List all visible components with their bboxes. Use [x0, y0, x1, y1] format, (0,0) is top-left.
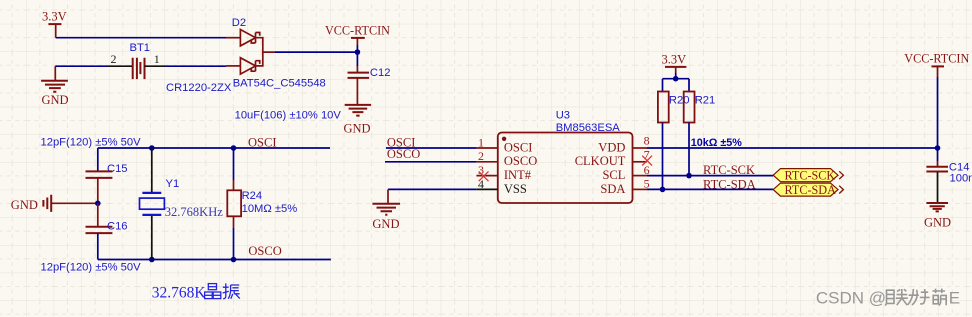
svg-text:OSCO: OSCO	[248, 244, 281, 258]
junction VDD/C14	[935, 145, 941, 151]
svg-text:100n: 100n	[950, 173, 972, 185]
battery BT1	[133, 58, 145, 79]
junction VCC-RTCIN / C12	[355, 49, 361, 55]
wire OSCO (crystal bottom)	[98, 259, 331, 261]
capacitor C12	[348, 52, 370, 104]
ground GND (crystal, rotated)	[11, 195, 98, 212]
wire battery to D2 bottom anode	[166, 65, 226, 67]
wire SCL to port	[647, 175, 773, 177]
svg-text:RTC-SDA: RTC-SDA	[785, 183, 837, 197]
junction crystal top	[149, 145, 155, 151]
junction SCL/R21	[686, 173, 692, 179]
svg-text:CLKOUT: CLKOUT	[575, 154, 626, 168]
svg-text:12pF(120) ±5% 50V: 12pF(120) ±5% 50V	[41, 137, 142, 149]
svg-text:INT#: INT#	[504, 168, 532, 182]
pin 2 OSCO stub	[476, 161, 497, 163]
glyph 萌	[932, 289, 945, 293]
ground GND (U3 VSS)	[372, 189, 400, 230]
wire GND to pin 4 VSS	[388, 188, 476, 190]
ground GND (below C12)	[344, 105, 372, 136]
svg-text:CR1220-2ZX: CR1220-2ZX	[166, 82, 232, 94]
IC U3 BM8563ESA	[498, 133, 633, 204]
wire 3.3V to R20/R21 tops	[663, 79, 690, 92]
title 32.768K晶振	[152, 283, 240, 301]
svg-text:OSCI: OSCI	[504, 140, 532, 154]
svg-text:GND: GND	[42, 93, 69, 107]
svg-text:CSDN @: CSDN @	[816, 288, 886, 307]
junction crystal bottom	[149, 257, 155, 263]
svg-text:3.3V: 3.3V	[662, 52, 687, 66]
svg-text:1: 1	[154, 52, 160, 66]
svg-text:2: 2	[478, 149, 484, 163]
svg-text:6: 6	[644, 163, 650, 177]
svg-text:5: 5	[644, 176, 650, 190]
svg-text:BM8563ESA: BM8563ESA	[556, 122, 621, 134]
svg-text:RTC-SDA: RTC-SDA	[703, 177, 756, 191]
svg-text:C15: C15	[107, 163, 128, 175]
svg-text:12pF(120) ±5% 50V: 12pF(120) ±5% 50V	[41, 262, 142, 274]
wire R21 to SCL	[688, 123, 690, 176]
glyph 朕	[885, 290, 894, 305]
svg-text:VSS: VSS	[504, 182, 527, 196]
pin 7 CLKOUT stub	[633, 161, 648, 163]
svg-text:8: 8	[644, 134, 650, 148]
watermark CSDN @朕好萌E	[816, 288, 960, 307]
svg-text:BT1: BT1	[130, 42, 151, 54]
svg-text:OSCI: OSCI	[248, 135, 276, 149]
svg-text:C16: C16	[107, 221, 128, 233]
port RTC-SDA	[773, 183, 843, 197]
svg-text:RTC-SCK: RTC-SCK	[785, 169, 836, 183]
resistor R24	[227, 148, 241, 260]
crystal Y1	[140, 148, 165, 260]
no-connect X pin 7	[642, 156, 652, 166]
svg-text:4: 4	[478, 177, 484, 191]
svg-text:R24: R24	[242, 190, 263, 202]
svg-text:2: 2	[111, 52, 117, 66]
svg-text:U3: U3	[556, 110, 570, 122]
wire OSCO to pin 2	[385, 161, 476, 163]
svg-text:BAT54C_C545548: BAT54C_C545548	[233, 78, 326, 90]
svg-text:VCC-RTCIN: VCC-RTCIN	[904, 52, 969, 66]
svg-text:D2: D2	[232, 17, 246, 29]
ground GND (C14)	[924, 203, 951, 229]
power port VCC-RTCIN (right)	[904, 52, 969, 148]
port RTC-SCK	[773, 169, 843, 183]
svg-text:SDA: SDA	[600, 182, 625, 196]
wire GND to battery pin 2	[55, 65, 108, 67]
wire R20 to SDA	[662, 123, 664, 190]
svg-text:VDD: VDD	[598, 140, 625, 154]
svg-text:1: 1	[478, 135, 484, 149]
svg-text:10uF(106) ±10% 10V: 10uF(106) ±10% 10V	[235, 109, 342, 121]
svg-text:32.768K: 32.768K	[152, 285, 207, 302]
battery BT1 pin 2 stub	[108, 65, 133, 67]
wire net 3.3V to D2 top anode	[56, 37, 226, 39]
svg-text:OSCO: OSCO	[504, 154, 537, 168]
junction R24 top	[231, 145, 237, 151]
pin 5 SDA stub	[633, 188, 648, 190]
svg-text:OSCO: OSCO	[387, 147, 420, 161]
capacitor C16	[86, 203, 113, 259]
pin 8 VDD stub	[633, 147, 648, 149]
wire SDA to port	[647, 188, 773, 190]
no-connect X pin 3	[479, 171, 489, 181]
svg-text:3.3V: 3.3V	[42, 10, 67, 24]
power port 3.3V (top left)	[42, 10, 67, 38]
svg-text:GND: GND	[372, 217, 399, 231]
ground GND (below 3.3V, battery negative)	[41, 66, 68, 107]
junction 3.3V split	[673, 76, 679, 82]
resistor R20	[658, 92, 669, 123]
wire OSCI to pin 1	[386, 147, 476, 149]
resistor R21	[684, 92, 695, 123]
junction C15/C16/GND	[95, 201, 101, 207]
pin 6 SCL stub	[633, 175, 648, 177]
wire D2 output to VCC-RTCIN	[275, 51, 358, 53]
svg-text:GND: GND	[11, 198, 38, 212]
pin 1 OSCI stub	[476, 147, 497, 149]
svg-text:RTC-SCK: RTC-SCK	[703, 163, 755, 177]
pin 4 VSS stub	[476, 188, 497, 190]
glyph 好	[908, 289, 919, 305]
wire VDD pin 8 to VCC-RTCIN	[647, 147, 938, 149]
svg-text:E: E	[949, 288, 960, 307]
svg-text:R21: R21	[695, 94, 716, 106]
capacitor C14	[926, 148, 948, 203]
battery BT1 pin 1 stub	[145, 65, 167, 67]
svg-text:C12: C12	[370, 67, 391, 79]
svg-text:GND: GND	[924, 215, 951, 229]
wire OSCI (crystal top)	[98, 147, 330, 149]
svg-text:VCC-RTCIN: VCC-RTCIN	[325, 24, 390, 38]
junction R24 bottom	[231, 257, 237, 263]
pin 3 INT# stub	[476, 175, 497, 177]
diode D2 (dual schottky BAT54C)	[226, 30, 275, 75]
svg-text:10MΩ ±5%: 10MΩ ±5%	[242, 203, 298, 215]
svg-text:SCL: SCL	[602, 168, 625, 182]
svg-text:32.768KHz: 32.768KHz	[165, 205, 223, 219]
svg-text:R20: R20	[669, 94, 690, 106]
svg-text:Y1: Y1	[166, 178, 180, 190]
svg-text:GND: GND	[344, 122, 371, 136]
glyph 晶	[205, 284, 221, 299]
capacitor C15	[86, 148, 113, 203]
junction SDA/R20	[660, 187, 666, 193]
power port VCC-RTCIN (left)	[325, 24, 390, 52]
power port 3.3V (pullups)	[662, 52, 687, 78]
glyph 振	[223, 283, 240, 298]
